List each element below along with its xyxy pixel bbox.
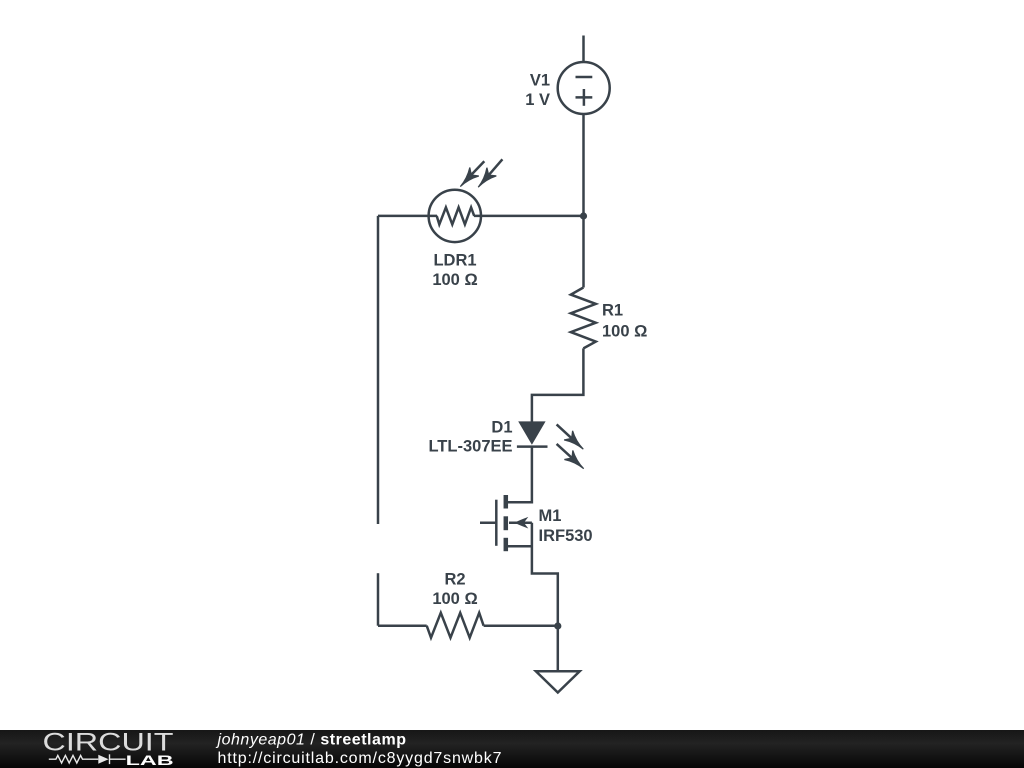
wire left of LDR1 xyxy=(378,215,437,218)
wire node A to R1 xyxy=(582,216,585,288)
CircuitLab logo resistor-diode glyph xyxy=(49,754,126,764)
resistor R1 xyxy=(571,288,596,349)
ground xyxy=(536,671,580,692)
svg-text:100 Ω: 100 Ω xyxy=(602,323,647,341)
svg-text:V1: V1 xyxy=(530,72,550,90)
wire top terminal to V1 xyxy=(582,36,585,63)
svg-text:R2: R2 xyxy=(444,571,465,589)
transistor M1 (NMOS) xyxy=(480,495,532,551)
photoresistor LDR1 xyxy=(429,190,481,242)
svg-text:LDR1: LDR1 xyxy=(433,252,476,270)
svg-text:johnyeap01 / streetlamp: johnyeap01 / streetlamp xyxy=(216,731,407,748)
wire R2 to node B xyxy=(484,624,558,627)
svg-text:D1: D1 xyxy=(491,419,512,437)
wire R1 to D1 xyxy=(532,348,584,421)
LDR1 light arrow 1 xyxy=(460,161,484,186)
svg-text:100 Ω: 100 Ω xyxy=(432,271,477,289)
resistor R2 xyxy=(427,613,484,638)
voltage source V1 xyxy=(558,62,610,114)
wire node B to ground xyxy=(557,626,560,671)
D1 light arrow 2 xyxy=(557,444,584,469)
wire M1 source to node B xyxy=(532,523,558,626)
svg-text:1 V: 1 V xyxy=(525,91,550,109)
svg-text:LAB: LAB xyxy=(126,753,174,768)
D1 light arrow 1 xyxy=(557,424,584,449)
node B junction dot xyxy=(554,622,561,629)
svg-text:100 Ω: 100 Ω xyxy=(432,590,477,608)
footer bar xyxy=(0,730,1024,768)
wire V1 to node A xyxy=(582,114,585,216)
svg-text:M1: M1 xyxy=(539,507,562,525)
LDR1 light arrow 2 xyxy=(478,159,502,187)
wire D1 cathode to M1 drain xyxy=(508,447,532,503)
wire left rail to R2 xyxy=(378,624,427,627)
node A junction dot xyxy=(580,212,587,219)
wire left rail lower xyxy=(377,573,380,626)
LED D1 xyxy=(517,421,548,446)
wire gate stub (left rail upper) xyxy=(377,216,380,524)
svg-text:IRF530: IRF530 xyxy=(539,527,593,545)
svg-text:R1: R1 xyxy=(602,302,623,320)
wire LDR1 to node A xyxy=(474,215,584,218)
svg-text:LTL-307EE: LTL-307EE xyxy=(428,438,512,456)
svg-text:http://circuitlab.com/c8yygd7s: http://circuitlab.com/c8yygd7snwbk7 xyxy=(218,750,503,767)
